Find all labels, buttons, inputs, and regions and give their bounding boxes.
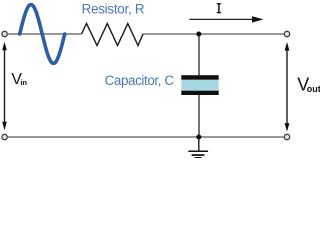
svg-text:Resistor, R: Resistor, R — [82, 1, 145, 16]
svg-text:Vin: Vin — [11, 71, 27, 88]
svg-text:Vout: Vout — [297, 75, 320, 95]
svg-text:Capacitor, C: Capacitor, C — [105, 73, 175, 88]
